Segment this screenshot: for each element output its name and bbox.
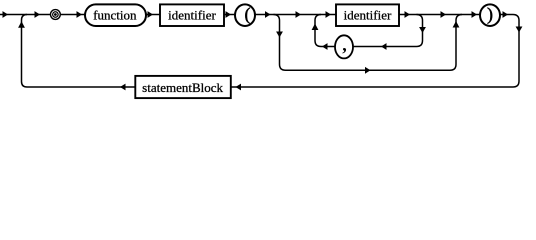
svg-text:(: ( bbox=[245, 4, 251, 25]
svg-text:function: function bbox=[93, 7, 137, 22]
svg-text:identifier: identifier bbox=[168, 7, 216, 22]
svg-text:): ) bbox=[487, 4, 493, 25]
svg-text:statementBlock: statementBlock bbox=[142, 80, 223, 95]
svg-text:identifier: identifier bbox=[344, 7, 392, 22]
svg-text:,: , bbox=[342, 34, 347, 54]
